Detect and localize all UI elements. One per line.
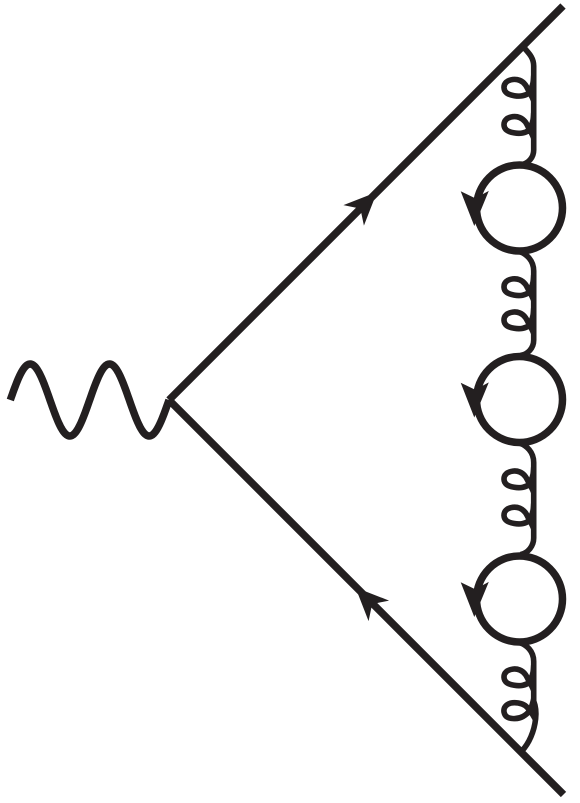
arrow on lower fermion line (356, 588, 390, 622)
fermion loop circle 2 (477, 357, 563, 443)
arrow on upper fermion line (343, 192, 377, 226)
fermion loop circle 3 (477, 556, 563, 642)
gluon lane segment 1 (upper fermion line to loop circle 1) (521, 47, 534, 165)
gluon lane segment 2 (loop circle 1 to loop circle 2) (521, 252, 534, 355)
gluon lane segment 4 (loop circle 3 to lower fermion line) (521, 643, 536, 751)
gluon curl petal 2a (504, 275, 534, 300)
arrow on fermion loop 2 (461, 382, 489, 417)
gluon curl petal 3b (504, 504, 534, 529)
gluon curl petal 1b (504, 113, 534, 138)
fermion line lower (incoming antifermion) (169, 400, 564, 795)
arrow on fermion loop 3 (461, 582, 489, 617)
gluon lane segment 3 (loop circle 2 to loop circle 3) (521, 444, 534, 555)
photon wavy line (incoming photon) (10, 364, 169, 436)
gluon curl petal 1a (504, 76, 534, 101)
gluon curl petal 2b (504, 308, 534, 333)
fermion loop circle 1 (477, 165, 563, 251)
gluon curl petal 4b (504, 699, 536, 720)
gluon curl petal 4a (504, 665, 534, 690)
arrow on fermion loop 1 (461, 191, 489, 226)
gluon curl petal 3a (504, 467, 534, 492)
fermion line upper (outgoing fermion) (169, 6, 563, 400)
